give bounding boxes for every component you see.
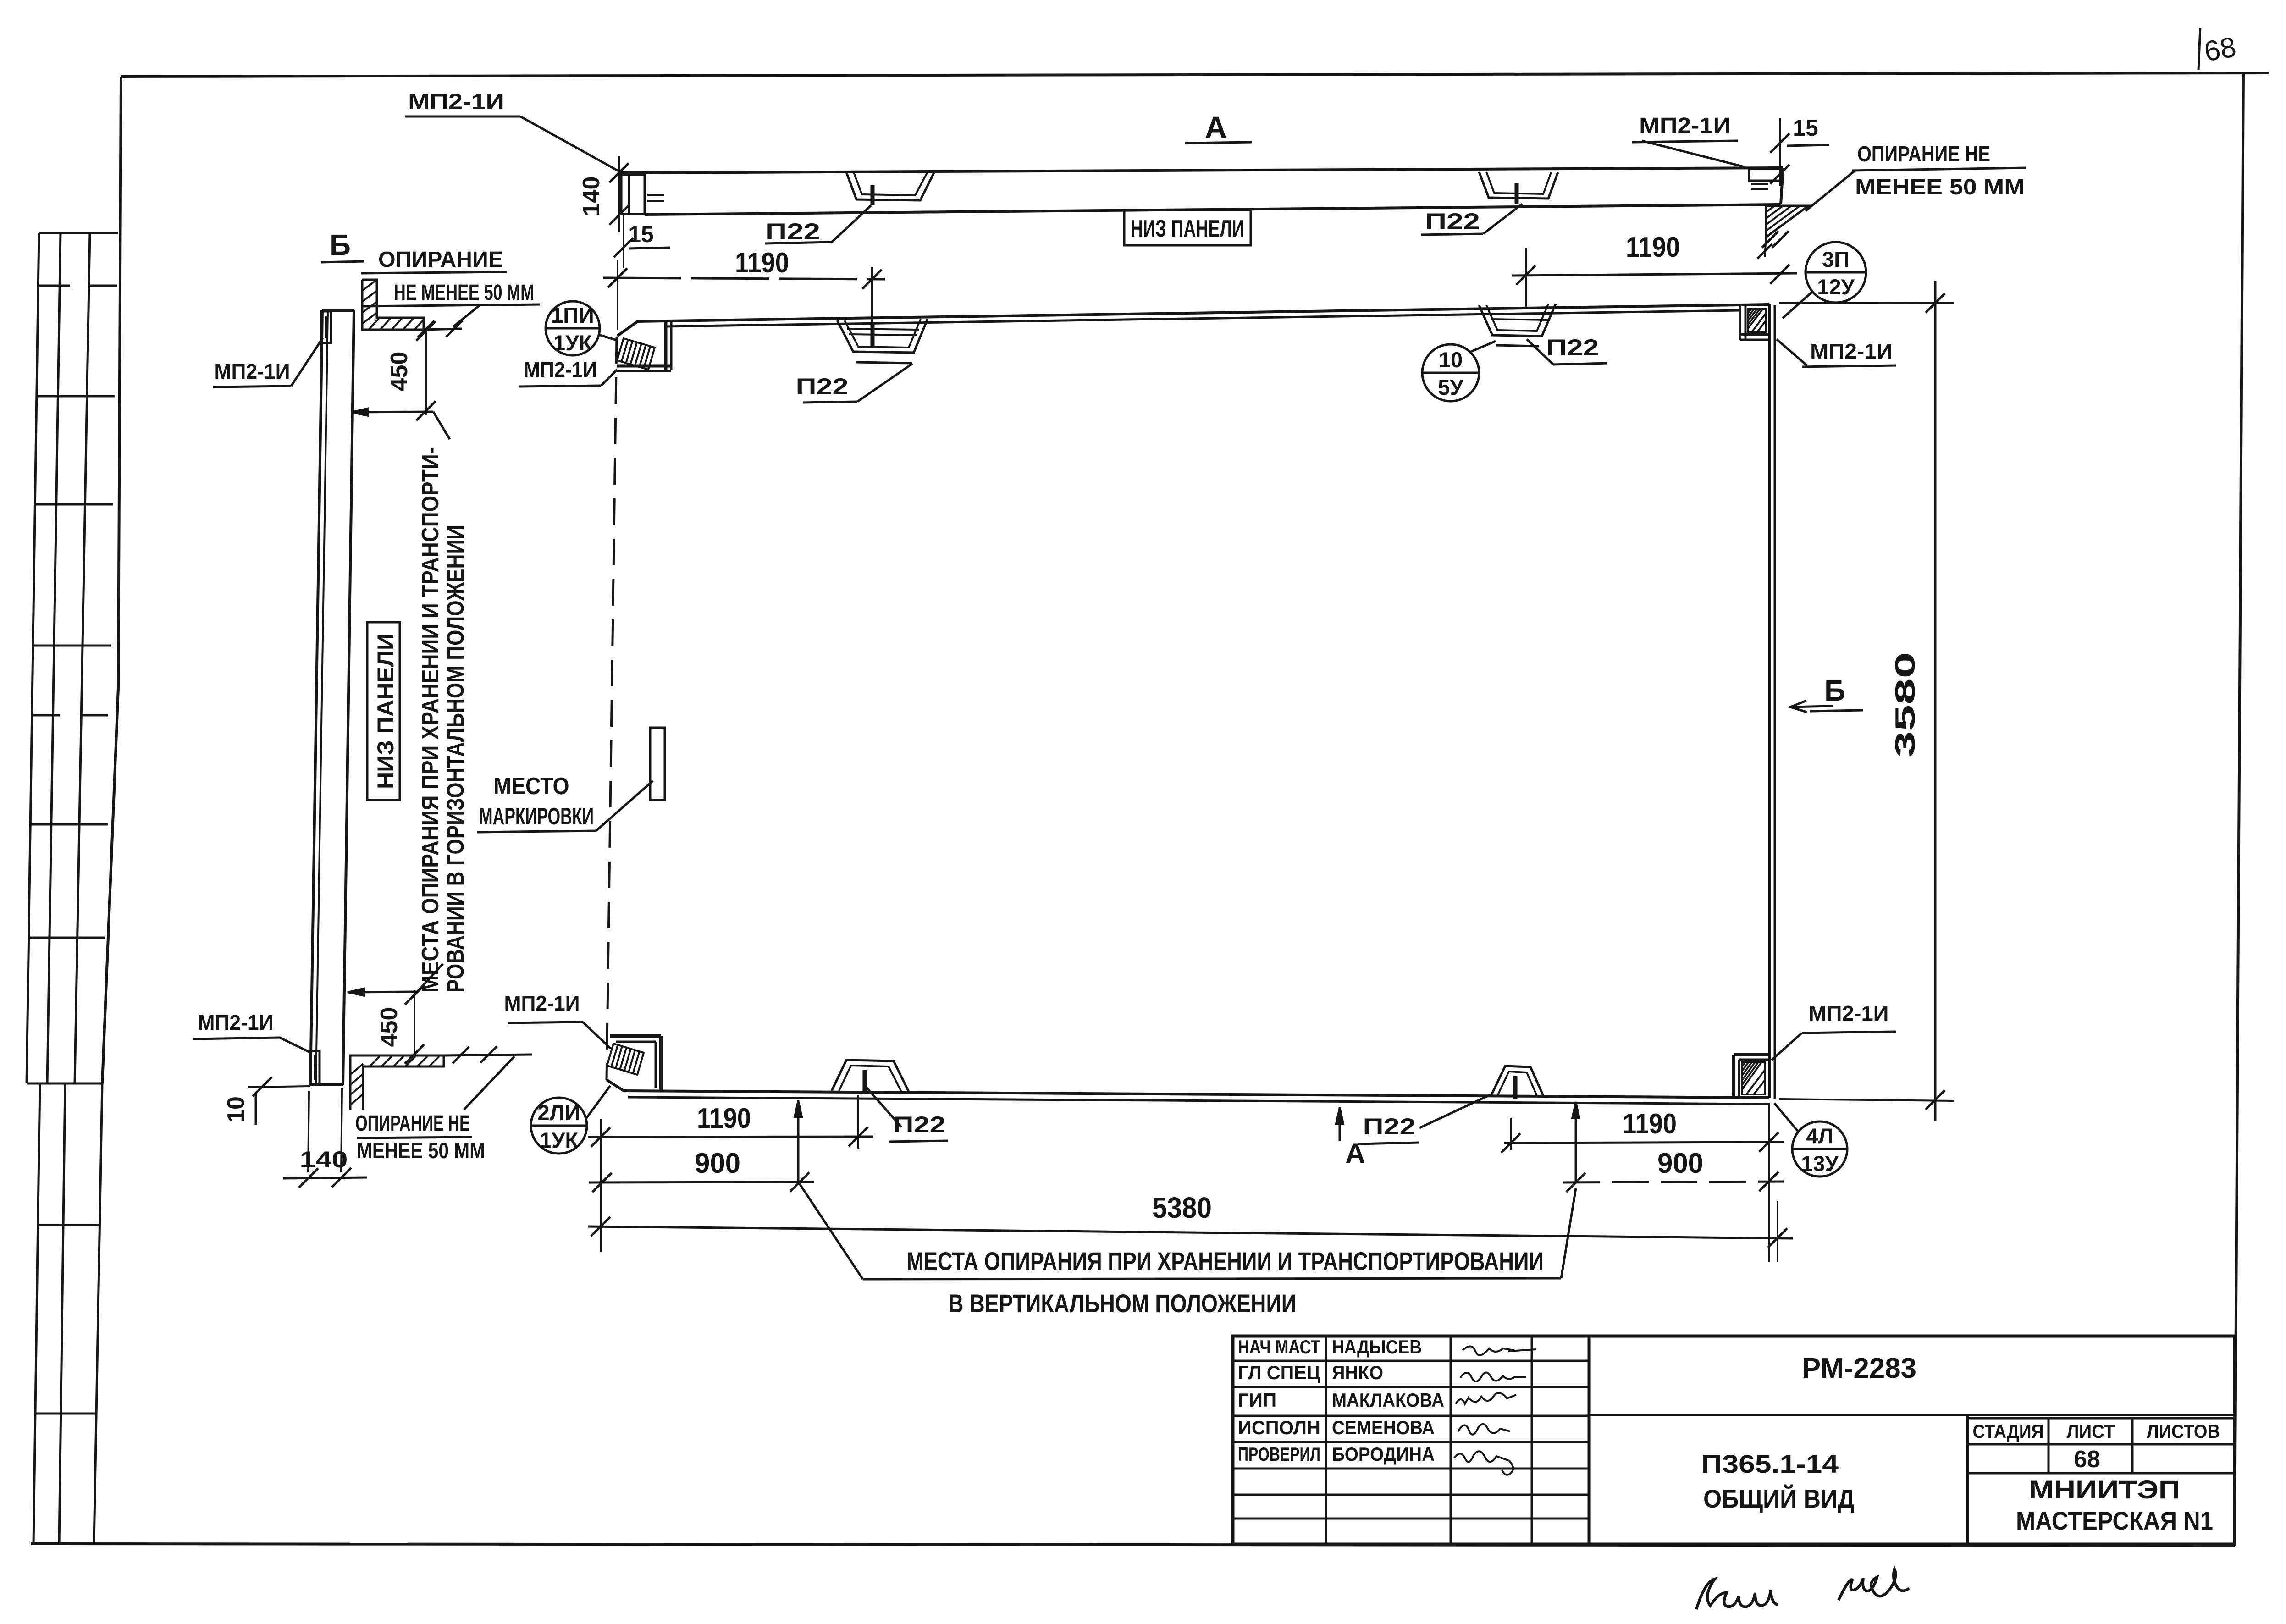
bottom note line 1 with leaders bbox=[800, 1184, 1576, 1279]
svg-text:НЕ МЕНЕЕ 50 ММ: НЕ МЕНЕЕ 50 ММ bbox=[394, 281, 534, 305]
P22 pocket left in section A band bbox=[846, 172, 934, 205]
sheet number 68 top right bbox=[2198, 28, 2238, 70]
support location arrow (section B bottom) bbox=[348, 964, 443, 996]
svg-text:МП2-1И: МП2-1И bbox=[408, 90, 504, 114]
svg-text:МЕНЕЕ 50 ММ: МЕНЕЕ 50 ММ bbox=[357, 1139, 485, 1163]
marking spot rectangle (mesto markirovki) bbox=[650, 728, 665, 800]
note OPIRANIE NE MENEE 50 MM (section B top) bbox=[361, 248, 540, 327]
svg-text:НАДЫСЕВ: НАДЫСЕВ bbox=[1332, 1336, 1422, 1358]
svg-text:П22: П22 bbox=[1363, 1114, 1416, 1139]
svg-text:МЕСТА ОПИРАНИЯ ПРИ ХРАНЕНИИ И: МЕСТА ОПИРАНИЯ ПРИ ХРАНЕНИИ И ТРАНСПОРТИ… bbox=[906, 1247, 1544, 1276]
svg-text:МП2-1И: МП2-1И bbox=[215, 359, 290, 383]
svg-text:В ВЕРТИКАЛЬНОМ ПОЛОЖЕНИИ: В ВЕРТИКАЛЬНОМ ПОЛОЖЕНИИ bbox=[948, 1289, 1297, 1318]
svg-text:ИСПОЛН: ИСПОЛН bbox=[1238, 1417, 1320, 1438]
dimension 10 (section B bottom) bbox=[223, 1077, 310, 1125]
svg-text:12У: 12У bbox=[1817, 275, 1855, 299]
svg-text:1190: 1190 bbox=[1626, 232, 1680, 263]
support hatched L (section B top) bbox=[362, 280, 463, 337]
svg-text:НАЧ МАСТ: НАЧ МАСТ bbox=[1238, 1336, 1320, 1358]
svg-text:3П: 3П bbox=[1822, 247, 1850, 271]
svg-text:ГИП: ГИП bbox=[1238, 1389, 1276, 1411]
svg-text:1190: 1190 bbox=[1623, 1108, 1677, 1140]
vertical note line 2 bbox=[442, 525, 469, 993]
svg-text:МАКЛАКОВА: МАКЛАКОВА bbox=[1332, 1389, 1444, 1411]
svg-text:10: 10 bbox=[1439, 348, 1463, 372]
svg-text:15: 15 bbox=[628, 221, 654, 247]
dimension 5380 bottom bbox=[588, 1191, 1793, 1262]
svg-text:5380: 5380 bbox=[1152, 1191, 1212, 1224]
P22 pocket plan top-right bbox=[1479, 304, 1556, 346]
extension line right bottom corner bbox=[1768, 1103, 1770, 1262]
corner anchor plate bottom-left (plan) bbox=[607, 1036, 661, 1092]
svg-text:П22: П22 bbox=[796, 374, 849, 399]
svg-text:МЕСТА ОПИРАНИЯ ПРИ ХРАНЕНИИ И: МЕСТА ОПИРАНИЯ ПРИ ХРАНЕНИИ И ТРАНСПОРТИ… bbox=[417, 447, 444, 993]
label P22 for right band pocket bbox=[1421, 204, 1522, 235]
svg-text:ОПИРАНИЕ НЕ: ОПИРАНИЕ НЕ bbox=[1857, 142, 1990, 166]
svg-text:МП2-1И: МП2-1И bbox=[1809, 1001, 1889, 1025]
svg-text:900: 900 bbox=[695, 1148, 740, 1179]
svg-text:П22: П22 bbox=[765, 219, 820, 244]
P22 pocket plan bottom-right bbox=[1491, 1066, 1544, 1099]
label P22 plan top-left bbox=[796, 364, 913, 403]
svg-text:ЛИСТ: ЛИСТ bbox=[2067, 1420, 2115, 1442]
svg-text:1УК: 1УК bbox=[540, 1128, 578, 1152]
label P22 plan bottom-left bbox=[867, 1088, 948, 1142]
dimension 1190 top-right bbox=[1512, 232, 1797, 307]
title block signatures (handwritten) bbox=[1454, 1346, 1536, 1475]
embedded plate MP2-1I section B bottom bbox=[310, 1051, 320, 1084]
svg-text:3580: 3580 bbox=[1890, 652, 1921, 757]
label P22 plan top-right bbox=[1527, 335, 1607, 365]
corner anchor plate top-right (plan) bbox=[1740, 305, 1769, 340]
svg-text:450: 450 bbox=[386, 352, 413, 392]
svg-text:МЕСТО: МЕСТО bbox=[494, 773, 569, 800]
svg-text:Б: Б bbox=[1824, 674, 1845, 707]
vertical note line 1: places of support in horizontal position bbox=[417, 447, 444, 993]
svg-text:15: 15 bbox=[1793, 115, 1818, 141]
svg-text:РОВАНИИ В ГОРИЗОНТАЛЬНОМ ПОЛОЖ: РОВАНИИ В ГОРИЗОНТАЛЬНОМ ПОЛОЖЕНИИ bbox=[442, 525, 469, 993]
support hatched L (section B bottom) bbox=[350, 1046, 532, 1110]
label MP2-1I plan top-right corner bbox=[1777, 339, 1896, 367]
title block project number RM-2283 bbox=[1802, 1353, 1916, 1384]
section arrow A bottom bbox=[1336, 1107, 1365, 1169]
svg-text:МП2-1И: МП2-1И bbox=[524, 358, 597, 381]
svg-text:РМ-2283: РМ-2283 bbox=[1802, 1353, 1916, 1384]
svg-text:МП2-1И: МП2-1И bbox=[198, 1011, 274, 1034]
section label B (left) bbox=[321, 228, 364, 262]
support pad hatched (section A right) bbox=[1757, 206, 1808, 259]
svg-text:ОБЩИЙ ВИД: ОБЩИЙ ВИД bbox=[1703, 1484, 1855, 1513]
title block stage/sheet headers bbox=[1973, 1420, 2220, 1473]
svg-text:ЯНКО: ЯНКО bbox=[1332, 1362, 1383, 1383]
svg-text:МП2-1И: МП2-1И bbox=[1810, 339, 1893, 363]
svg-text:ПРОВЕРИЛ: ПРОВЕРИЛ bbox=[1238, 1443, 1320, 1465]
svg-text:1190: 1190 bbox=[735, 247, 789, 279]
callout circle 3P/12U top-right bbox=[1783, 242, 1866, 318]
svg-text:А: А bbox=[1205, 110, 1227, 144]
label P22 plan bottom-right bbox=[1358, 1095, 1490, 1144]
label MP2-1I plan bottom-left corner bbox=[504, 991, 611, 1049]
margin binding table bbox=[27, 233, 118, 1544]
svg-text:П365.1-14: П365.1-14 bbox=[1701, 1449, 1839, 1478]
plan hidden left edge (dashed) bbox=[607, 337, 617, 1080]
svg-text:БОРОДИНА: БОРОДИНА bbox=[1332, 1443, 1435, 1465]
support arrow bottom-left (vertical) bbox=[795, 1100, 802, 1182]
svg-text:140: 140 bbox=[578, 177, 605, 216]
svg-text:13У: 13У bbox=[1801, 1151, 1839, 1176]
svg-text:ГЛ СПЕЦ: ГЛ СПЕЦ bbox=[1238, 1362, 1320, 1383]
svg-text:2ЛИ: 2ЛИ bbox=[538, 1100, 580, 1125]
svg-text:МП2-1И: МП2-1И bbox=[1639, 114, 1731, 138]
svg-text:СЕМЕНОВА: СЕМЕНОВА bbox=[1332, 1417, 1435, 1438]
label NIZ PANELI boxed vertical (section B) bbox=[367, 622, 400, 800]
svg-text:ОПИРАНИЕ НЕ: ОПИРАНИЕ НЕ bbox=[355, 1111, 470, 1136]
section mark B right with arrow bbox=[1790, 674, 1863, 712]
label NIZ PANELI boxed (section A) bbox=[1124, 210, 1251, 245]
svg-text:68: 68 bbox=[2202, 31, 2238, 68]
title block item P365.1-14 / general view bbox=[1701, 1449, 1855, 1513]
svg-text:5У: 5У bbox=[1438, 375, 1463, 399]
dimension 1190 bottom-right bbox=[1501, 1108, 1784, 1153]
bottom note line 2 bbox=[948, 1289, 1297, 1318]
dimension 1190 top-left bbox=[603, 247, 885, 332]
svg-text:68: 68 bbox=[2074, 1446, 2100, 1473]
dimension 15 (section A right) bbox=[1770, 115, 1829, 186]
callout circle 1Pi/1UK top-left bbox=[546, 301, 617, 355]
label MP2-1I top right with leader bbox=[1632, 114, 1745, 167]
svg-text:900: 900 bbox=[1657, 1148, 1703, 1179]
corner anchor plate bottom-right (plan) bbox=[1734, 1055, 1769, 1098]
dimension 450 (section B bottom) bbox=[376, 985, 424, 1064]
label MESTO MARKIROVKI with leader bbox=[477, 773, 653, 832]
svg-text:4Л: 4Л bbox=[1806, 1124, 1833, 1148]
section A panel band outline bbox=[620, 168, 1783, 215]
svg-text:П22: П22 bbox=[1546, 335, 1599, 360]
title block frame bbox=[1233, 1336, 2235, 1544]
panel plan outline bbox=[607, 304, 1775, 1104]
svg-text:МАСТЕРСКАЯ N1: МАСТЕРСКАЯ N1 bbox=[2016, 1506, 2213, 1535]
svg-text:НИЗ ПАНЕЛИ: НИЗ ПАНЕЛИ bbox=[1131, 215, 1244, 242]
dimension 900 bottom-left bbox=[589, 1148, 814, 1192]
dimension 450 (section B top) bbox=[386, 321, 436, 420]
svg-text:1190: 1190 bbox=[697, 1103, 751, 1134]
svg-text:МЕНЕЕ 50 ММ: МЕНЕЕ 50 ММ bbox=[1855, 175, 2025, 199]
embedded plate MP2-1I section B top bbox=[321, 311, 331, 343]
svg-text:ЛИСТОВ: ЛИСТОВ bbox=[2147, 1420, 2220, 1442]
label MP2-1I section B bottom bbox=[193, 1011, 311, 1053]
svg-text:ОПИРАНИЕ: ОПИРАНИЕ bbox=[378, 248, 503, 272]
svg-text:1УК: 1УК bbox=[553, 331, 592, 355]
svg-text:140: 140 bbox=[300, 1147, 348, 1172]
svg-text:МАРКИРОВКИ: МАРКИРОВКИ bbox=[479, 803, 594, 830]
svg-text:НИЗ ПАНЕЛИ: НИЗ ПАНЕЛИ bbox=[373, 633, 398, 789]
callout circle 4L/13U bottom-right bbox=[1774, 1103, 1847, 1177]
callout circle 10/5U bbox=[1422, 341, 1496, 401]
dimension 1190 bottom-left bbox=[588, 1095, 873, 1252]
P22 pocket right in section A band bbox=[1479, 172, 1558, 204]
label MP2-1I plan top-left corner bbox=[519, 358, 617, 387]
note OPIRANIE NE MENEE 50 MM (top right) bbox=[1806, 142, 2026, 211]
support arrow bottom-right (vertical) bbox=[1572, 1102, 1579, 1182]
corner anchor plate top-left (plan) bbox=[617, 321, 671, 371]
svg-text:А: А bbox=[1345, 1138, 1365, 1169]
svg-text:СТАДИЯ: СТАДИЯ bbox=[1973, 1420, 2044, 1442]
label MP2-1I top left with leader bbox=[405, 90, 623, 173]
callout circle 2LI/1UK bottom-left bbox=[531, 1086, 610, 1154]
note OPIRANIE NE MENEE 50MM (section B bottom) bbox=[355, 1056, 514, 1163]
embedded plate MP2-1I left end of section A bbox=[621, 175, 664, 214]
dimension 140 (panel thickness, section A left) bbox=[578, 156, 629, 232]
P22 pocket plan bottom-left bbox=[832, 1060, 909, 1094]
section label A (top) bbox=[1185, 110, 1252, 144]
P22 pocket plan top-left bbox=[837, 319, 928, 363]
dimension 15 (section A left) bbox=[614, 215, 670, 268]
label P22 for left band pocket bbox=[765, 205, 871, 244]
svg-text:1ПИ: 1ПИ bbox=[551, 303, 594, 327]
svg-text:МНИИТЭП: МНИИТЭП bbox=[2029, 1475, 2180, 1504]
dimension 900 bottom-right bbox=[1563, 1148, 1784, 1192]
handwritten pencil note below title block bbox=[1696, 1569, 1909, 1609]
section B panel strip outline bbox=[310, 310, 354, 1085]
svg-text:10: 10 bbox=[223, 1096, 249, 1123]
svg-text:П22: П22 bbox=[1425, 209, 1480, 234]
label MP2-1I plan bottom-right corner bbox=[1772, 1001, 1896, 1060]
svg-text:Б: Б bbox=[330, 228, 351, 261]
label MP2-1I section B top bbox=[213, 338, 323, 387]
svg-text:МП2-1И: МП2-1И bbox=[504, 991, 580, 1015]
support location arrow (section B top) bbox=[351, 409, 450, 439]
embedded plate MP2-1I right end of section A bbox=[1749, 169, 1781, 189]
dimension 3580 right side bbox=[1779, 281, 1954, 1121]
title block organization MNIITEP bbox=[2016, 1475, 2213, 1535]
dimension 140 (section B bottom) bbox=[283, 1088, 367, 1188]
title block role texts bbox=[1238, 1336, 1444, 1465]
svg-text:450: 450 bbox=[376, 1007, 403, 1047]
